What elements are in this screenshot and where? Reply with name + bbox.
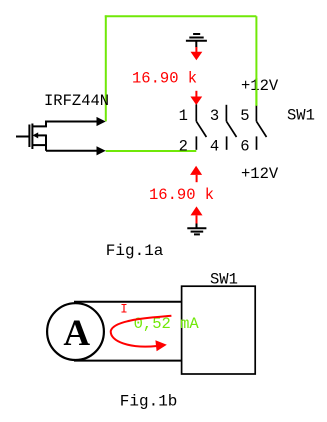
current arrow B (red, down) line — [195, 91, 197, 97]
switch SW1 pole 2 bottom bar — [195, 136, 197, 149]
svg-text:4: 4 — [210, 137, 219, 155]
ground top medium bar — [189, 37, 203, 39]
svg-text:5: 5 — [240, 107, 249, 125]
switch SW1 pole 1 top bar — [195, 104, 197, 121]
ground bottom medium bar — [191, 231, 204, 233]
switch SW1 pole 5 lever — [256, 121, 266, 137]
transistor Q1 body arrow — [33, 132, 39, 138]
wire net V+ top horizontal (green) — [105, 15, 257, 17]
svg-text:A: A — [63, 313, 90, 354]
svg-text:2: 2 — [179, 137, 188, 155]
switch SW1 pole 3 lever — [226, 121, 236, 137]
current loop arc (red) — [111, 316, 172, 347]
current arrow A head — [191, 52, 203, 61]
transistor Q1 drain arrowhead — [97, 117, 106, 126]
current arrow A (red, down) line — [195, 47, 197, 53]
transistor Q1 source lead from channel — [32, 144, 46, 146]
wire tube top line ammeter to box — [74, 301, 182, 303]
box SW1 (Fig.1b) — [182, 286, 256, 374]
transistor Q1 source arrowhead — [97, 146, 106, 155]
wire tube bottom line ammeter to box — [74, 360, 182, 362]
svg-text:SW1: SW1 — [287, 106, 315, 124]
ground top long bar — [186, 40, 207, 42]
svg-text:Fig.1a: Fig.1a — [106, 242, 164, 260]
current arrow B head — [190, 97, 202, 106]
current arrow D line — [196, 215, 198, 224]
svg-text:6: 6 — [240, 137, 249, 155]
ground bottom long bar — [187, 227, 206, 229]
svg-text:I: I — [120, 303, 128, 317]
ground top (inverted) short bar — [193, 33, 200, 35]
transistor Q1 channel bar — [31, 124, 33, 150]
ammeter A1 circle — [47, 303, 104, 360]
switch SW1 pole 4 bottom bar — [226, 136, 228, 149]
svg-text:IRFZ44N: IRFZ44N — [44, 92, 109, 110]
svg-text:+12V: +12V — [241, 165, 279, 183]
ground top stub — [195, 41, 197, 48]
transistor Q1 drain lead — [32, 122, 97, 127]
switch SW1 pole 3 top bar — [225, 105, 227, 122]
current arrow C (red, up) head — [190, 166, 202, 175]
svg-text:3: 3 — [210, 107, 219, 125]
svg-text:+12V: +12V — [241, 77, 279, 95]
transistor Q1 source lead horizontal — [46, 150, 97, 152]
wire green over +12V (redraw segment) — [255, 78, 257, 106]
wire net source bottom horizontal (green) — [106, 150, 197, 152]
transistor Q1 IRFZ44N gate lead — [16, 136, 29, 138]
current loop arrowhead — [155, 340, 166, 351]
svg-text:16.90 k: 16.90 k — [149, 186, 214, 204]
switch SW1 pole 5 top bar — [255, 106, 257, 122]
svg-text:0,52 mA: 0,52 mA — [134, 315, 200, 333]
svg-text:1: 1 — [179, 107, 188, 125]
transistor Q1 gate bar — [28, 125, 30, 148]
svg-text:16.90 k: 16.90 k — [132, 69, 197, 87]
current arrow D (red, up) head — [191, 206, 203, 215]
wire net V+ left vertical (green) — [105, 15, 107, 121]
transistor Q1 source vertical jog — [45, 135, 47, 151]
transistor Q1 body lead — [38, 134, 47, 136]
ground bottom short bar — [194, 233, 200, 235]
wire net V+ right vertical (green) — [255, 16, 257, 106]
ground bottom stub — [196, 224, 198, 229]
switch SW1 pole 1 lever — [196, 121, 206, 137]
current arrow C line — [196, 175, 198, 182]
svg-text:Fig.1b: Fig.1b — [120, 392, 178, 410]
switch SW1 pole 6 bottom bar — [256, 136, 258, 149]
